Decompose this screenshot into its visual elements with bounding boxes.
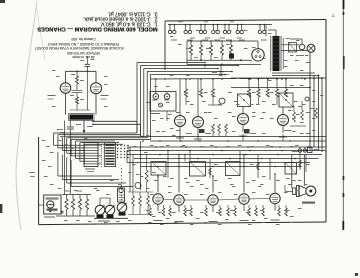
svg-text:11: 11 — [331, 13, 336, 18]
